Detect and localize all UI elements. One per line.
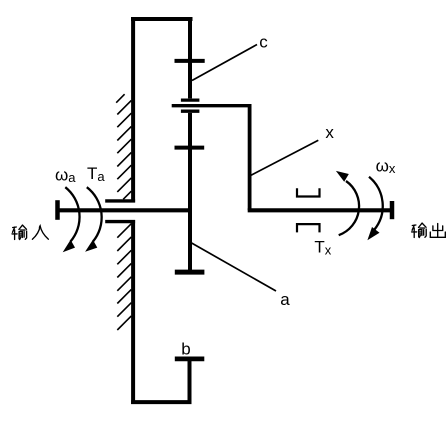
hatching on fixed wall upper (116, 94, 131, 199)
frame top bar (133, 17, 191, 21)
arm x vertical (248, 104, 252, 210)
svg-text:c: c (259, 32, 268, 51)
bearing lower ledge (105, 220, 135, 223)
mesh upper bar (181, 98, 200, 101)
input shaft (58, 208, 193, 212)
output rotation arrow omega_x (339, 181, 359, 235)
gear b shaft stub (188, 359, 192, 402)
leader line c (192, 45, 257, 81)
output shaft (248, 208, 392, 212)
gear b (175, 356, 205, 361)
svg-text:a: a (280, 290, 290, 309)
coupling bracket lower (297, 224, 320, 232)
input torque arrow T_a (87, 187, 102, 241)
central shaft lower segment (188, 113, 192, 272)
frame left wall upper (131, 17, 135, 203)
label shuchu (output) hand-drawn CJK (412, 223, 446, 237)
frame bottom bar (131, 400, 191, 404)
leader line a (192, 243, 276, 291)
input rotation arrow omega_a (65, 187, 79, 241)
input shaft end cap (55, 200, 60, 220)
frame left wall lower (131, 220, 135, 404)
mesh lower bar (181, 110, 200, 113)
leader line x (250, 140, 318, 175)
svg-text:b: b (181, 340, 190, 359)
arm x horizontal (172, 104, 250, 107)
hatching on fixed wall lower (117, 224, 131, 330)
gear a (175, 270, 205, 275)
gear tick on central shaft (175, 146, 205, 150)
svg-text:x: x (325, 123, 334, 142)
output torque arrow T_x (369, 177, 383, 230)
bearing upper ledge (105, 199, 135, 202)
coupling bracket upper (297, 188, 320, 196)
output shaft end cap (390, 201, 395, 219)
gear c tick (175, 59, 205, 63)
central shaft upper segment (188, 17, 192, 98)
label shuru (input) hand-drawn CJK (12, 225, 48, 239)
